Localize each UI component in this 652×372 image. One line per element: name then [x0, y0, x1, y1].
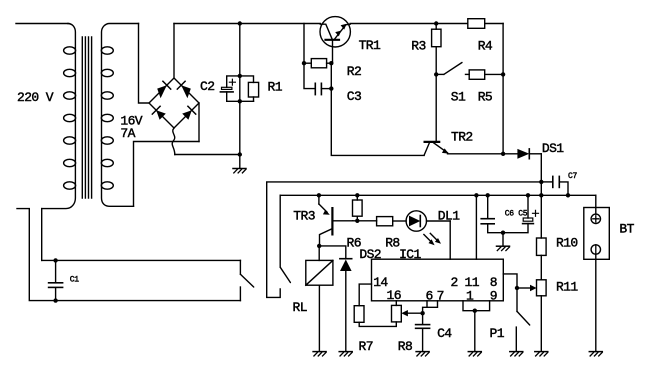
transistor TR1	[320, 17, 350, 63]
wire bridge right corner down	[198, 103, 200, 142]
node rail/C2	[238, 21, 242, 25]
wire bridge top to rail	[173, 24, 175, 79]
wire primary rail to relay contact	[42, 259, 241, 261]
svg-text:RL: RL	[293, 300, 307, 315]
svg-text:7A: 7A	[120, 126, 135, 141]
svg-text:C3: C3	[347, 89, 361, 104]
node TR3 collector	[317, 244, 321, 248]
IC pins 6,7 stubs	[423, 301, 438, 313]
svg-text:DS2: DS2	[359, 247, 381, 262]
node C7 left	[539, 180, 543, 184]
node C2R1 bottom	[238, 99, 242, 103]
wire bridge minus to ground node	[175, 154, 240, 156]
bridge diode D3 (bottom-left)	[152, 106, 166, 120]
svg-text:DS1: DS1	[542, 141, 564, 156]
wire to ground G6	[502, 233, 504, 246]
switch P1	[516, 288, 529, 351]
wire right branch vertical	[502, 24, 504, 154]
svg-text:DL1: DL1	[438, 208, 460, 223]
wire primary bottom down	[41, 209, 43, 261]
node C1 bottom	[53, 298, 57, 302]
resistor R10	[537, 195, 547, 279]
resistor R5	[466, 70, 504, 79]
svg-text:R3: R3	[411, 39, 425, 54]
svg-text:P1: P1	[490, 326, 505, 341]
svg-text:TR2: TR2	[451, 130, 473, 145]
ground G2 (relay)	[313, 352, 326, 356]
inner rail	[280, 194, 596, 196]
wire secondary bottom to bridge right	[134, 142, 200, 207]
wire secondary top to bridge left	[139, 24, 150, 104]
svg-text:BT: BT	[619, 222, 634, 237]
wire TR1 base chain down to TR2 collector	[331, 63, 424, 155]
resistor R4	[468, 19, 485, 29]
wire bridge bottom squiggle	[172, 128, 175, 155]
node pins 1,9	[473, 309, 477, 313]
svg-text:220 V: 220 V	[17, 90, 54, 105]
node C1 top	[53, 258, 57, 262]
ground G1	[233, 169, 246, 173]
capacitor C2 (electrolytic)	[220, 76, 239, 101]
wire pin14 to R7	[359, 284, 371, 306]
capacitor C1	[49, 260, 63, 300]
top rail continued right of TR1	[350, 23, 503, 25]
capacitor C5 (electrolytic)	[503, 193, 539, 233]
svg-text:8: 8	[490, 275, 497, 290]
svg-text:TR3: TR3	[293, 209, 315, 224]
transformer T1 primary winding	[42, 24, 76, 209]
svg-text:11: 11	[465, 275, 480, 290]
outer rail (charge line)	[267, 182, 542, 298]
svg-text:R11: R11	[556, 280, 578, 295]
svg-text:R4: R4	[478, 39, 493, 54]
diode DS1	[517, 149, 541, 159]
svg-text:S1: S1	[451, 89, 466, 104]
svg-text:R8: R8	[398, 339, 412, 354]
capacitor C3	[304, 63, 331, 94]
bridge diode D1 (top-left)	[157, 79, 173, 99]
transistor TR3	[317, 193, 353, 246]
capacitor C6	[481, 193, 503, 233]
LED DL1	[406, 211, 450, 245]
transformer T1 secondary winding	[101, 24, 138, 207]
trimmer R8	[392, 301, 423, 322]
svg-text:R5: R5	[478, 89, 492, 104]
wire IC pin11 to rail	[475, 195, 477, 259]
relay contact B blade	[280, 195, 290, 282]
svg-text:C2: C2	[200, 79, 214, 94]
wire TR2 emitter to DS1	[448, 153, 518, 155]
battery BT	[584, 195, 610, 351]
transistor TR2	[424, 74, 449, 155]
node TR1 base / R2 right	[329, 61, 333, 65]
svg-text:R7: R7	[359, 339, 373, 354]
svg-text:C1: C1	[70, 276, 80, 285]
node R5 right	[501, 72, 505, 76]
svg-text:2: 2	[451, 275, 458, 290]
switch S1	[436, 63, 462, 75]
diode DS2	[319, 246, 352, 351]
capacitor C4	[416, 313, 430, 351]
svg-text:R8: R8	[385, 235, 399, 250]
bridge diode D2 (top-right)	[177, 81, 191, 98]
wire DS1 down to C7 node	[540, 154, 542, 196]
svg-text:C4: C4	[437, 326, 452, 341]
potentiometer R11	[537, 280, 547, 351]
svg-text:TR1: TR1	[359, 38, 381, 53]
wire TR3 base to R8	[353, 220, 377, 222]
node R6 rail	[355, 193, 359, 197]
ground G6	[497, 246, 510, 250]
svg-text:9: 9	[490, 289, 497, 304]
IC1 box	[372, 259, 504, 301]
wire DL1 to IC pin2	[449, 221, 451, 259]
transformer T1 core	[82, 37, 91, 198]
wire rail to R2C3	[303, 24, 305, 64]
ground G3 (DS2)	[339, 352, 352, 356]
bridge diode D4 (bottom-right)	[182, 106, 196, 120]
svg-text:R10: R10	[556, 236, 578, 251]
resistor R1	[227, 76, 259, 101]
relay coil RL	[306, 246, 333, 351]
node C3 right	[329, 86, 333, 90]
capacitor C7	[541, 176, 568, 195]
resistor R6	[353, 195, 363, 221]
wiper arrow to R11	[517, 285, 537, 291]
ground G9 (BT)	[589, 352, 602, 356]
node trimmer wiper	[420, 311, 424, 315]
node bridge minus	[238, 152, 242, 156]
wire pins 1,9 to ground	[474, 311, 476, 352]
node pin8/P1/R11	[515, 286, 519, 290]
svg-text:R2: R2	[347, 64, 361, 79]
resistor R7	[354, 306, 396, 327]
ground G7 (P1)	[510, 352, 523, 356]
ground G8 (R11)	[535, 352, 548, 356]
resistor R8 (LED series)	[377, 217, 407, 226]
svg-text:1: 1	[466, 289, 474, 304]
IC pins 1,9 stubs	[463, 301, 490, 311]
node emitter/branch	[501, 152, 505, 156]
svg-text:C6 C5: C6 C5	[505, 210, 528, 219]
ground G4 (C4)	[416, 352, 429, 356]
ground G5	[468, 352, 481, 356]
node C2R1 top	[238, 74, 242, 78]
resistor R3	[432, 21, 441, 74]
node R6 bottom	[355, 219, 359, 223]
wire mains top stub	[16, 23, 68, 25]
relay contact A (mains)	[240, 260, 253, 300]
node C5C6 ground	[501, 231, 505, 235]
svg-text:IC1: IC1	[399, 247, 421, 262]
node C7 right rail	[566, 193, 570, 197]
node R3 bottom / S1	[434, 72, 438, 76]
wire IC pin8 right	[503, 274, 517, 288]
node pin11 rail	[474, 193, 478, 197]
node rail R10	[539, 193, 543, 197]
resistor R2	[304, 59, 331, 68]
bridge rectifier diamond	[149, 78, 199, 128]
wire mains bottom stub and return	[17, 209, 240, 301]
svg-text:7: 7	[437, 289, 444, 304]
node R2 left	[302, 61, 306, 65]
wire C2R1 vertical	[239, 24, 241, 169]
svg-text:C7: C7	[568, 172, 578, 181]
svg-text:6: 6	[426, 289, 433, 304]
svg-text:16: 16	[387, 288, 401, 303]
top rail	[174, 23, 320, 25]
svg-text:R1: R1	[268, 80, 283, 95]
